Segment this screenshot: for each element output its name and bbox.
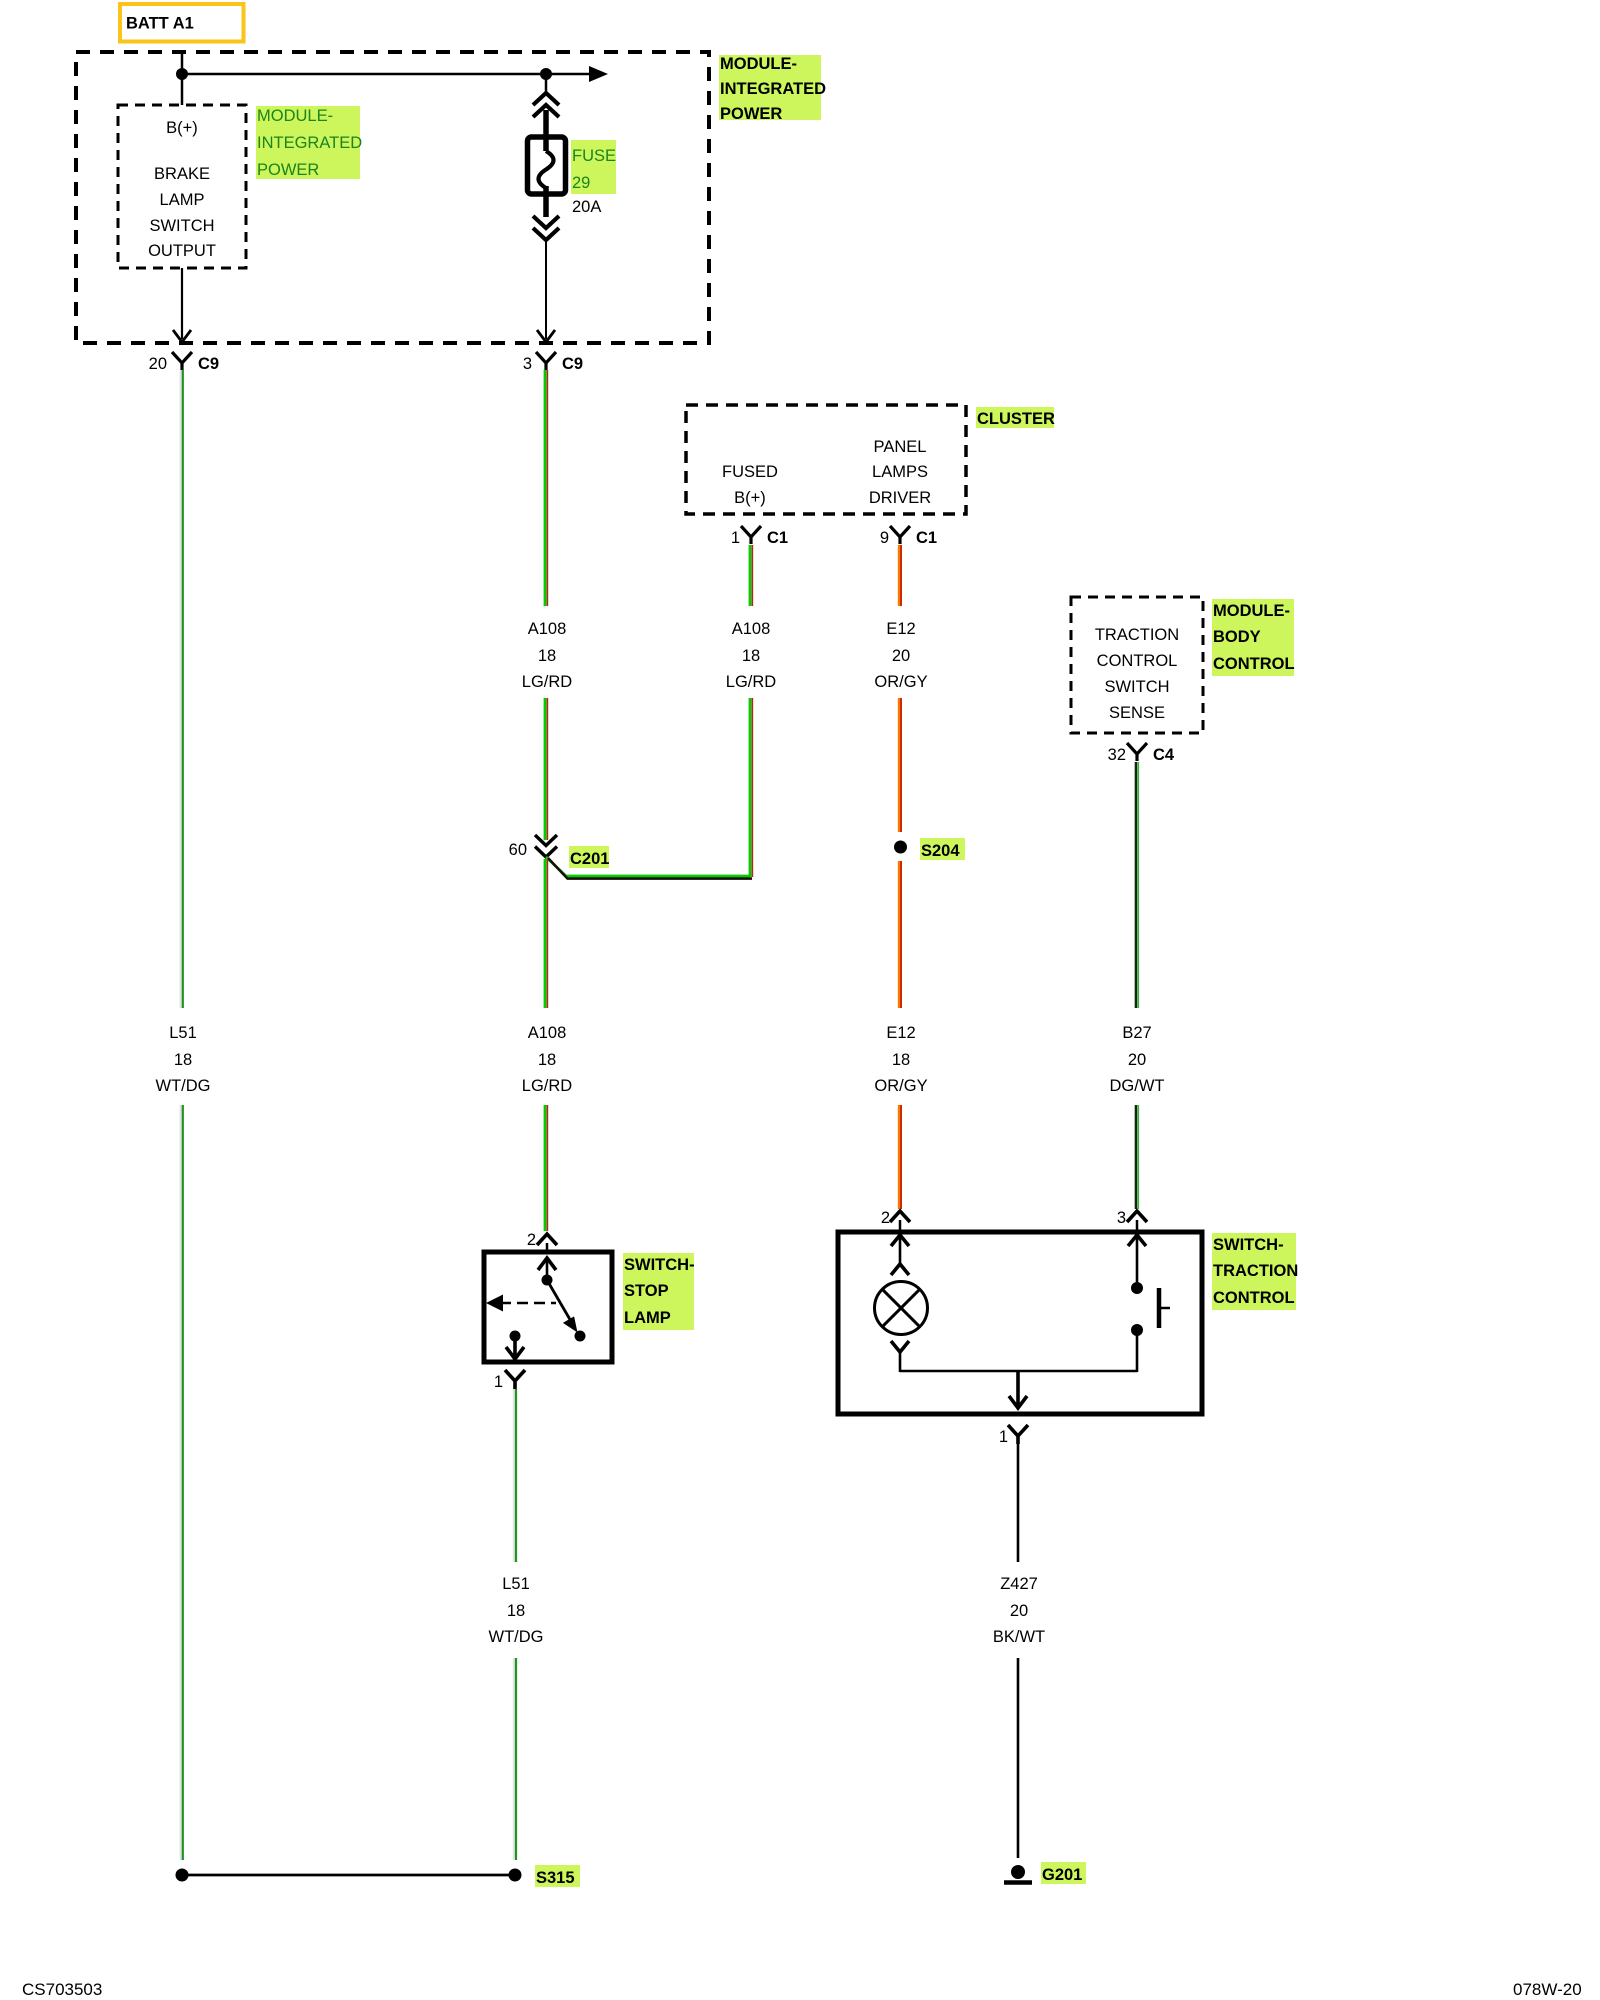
wire L51 WT/DG to splice S315 — [514, 1658, 516, 1860]
svg-text:G201: G201 — [1042, 1866, 1082, 1884]
svg-text:LAMPS: LAMPS — [872, 463, 928, 481]
traction control switch pin 2 — [881, 1209, 910, 1232]
connector C9 pin 3 — [523, 352, 583, 373]
stop lamp switch actuator dashed link — [486, 1295, 556, 1312]
svg-text:078W-20: 078W-20 — [1513, 1980, 1582, 1999]
wire E12 OR/GY to splice S204 — [899, 698, 901, 1008]
svg-text:WT/DG: WT/DG — [156, 1077, 211, 1095]
svg-text:CONTROL: CONTROL — [1213, 1289, 1295, 1307]
svg-text:A108: A108 — [732, 620, 771, 638]
traction control illumination lamp feed — [891, 1235, 909, 1275]
svg-text:SENSE: SENSE — [1109, 704, 1165, 722]
svg-text:DG/WT: DG/WT — [1110, 1077, 1165, 1095]
label G201 — [1041, 1862, 1086, 1884]
label MODULE-INTEGRATED POWER (outside right) — [719, 55, 826, 123]
svg-text:FUSED: FUSED — [722, 463, 778, 481]
svg-text:LG/RD: LG/RD — [522, 1077, 573, 1095]
svg-text:18: 18 — [892, 1051, 910, 1069]
svg-text:18: 18 — [742, 647, 760, 665]
svg-text:L51: L51 — [502, 1575, 530, 1593]
B(+) brake lamp switch output box (dashed) — [118, 105, 246, 268]
wire L51 WT/DG from stop lamp switch — [514, 1389, 516, 1562]
lamp (illumination bulb) — [875, 1282, 928, 1335]
svg-text:C1: C1 — [767, 529, 788, 547]
svg-text:B(+): B(+) — [734, 489, 766, 507]
svg-text:C201: C201 — [570, 850, 609, 868]
svg-text:20: 20 — [149, 355, 167, 373]
module-integrated power outline (dashed box) — [76, 52, 709, 343]
svg-text:18: 18 — [538, 1051, 556, 1069]
traction control switch pin 3 — [1117, 1209, 1147, 1232]
svg-text:60: 60 — [509, 841, 527, 859]
svg-text:BRAKE: BRAKE — [154, 165, 210, 183]
wire A108 LG/RD to stop lamp switch — [545, 1105, 547, 1231]
svg-text:POWER: POWER — [257, 161, 319, 179]
stop lamp switch blade — [547, 1280, 586, 1342]
svg-text:BODY: BODY — [1213, 628, 1261, 646]
traction control switch pin 1 — [999, 1425, 1028, 1446]
svg-text:LG/RD: LG/RD — [522, 673, 573, 691]
wire from BATT A1 into module — [181, 52, 184, 105]
common return bus inside switch — [900, 1371, 1137, 1408]
wire Z427 BK/WT upper — [1017, 1444, 1020, 1562]
svg-text:C9: C9 — [562, 355, 583, 373]
svg-text:18: 18 — [507, 1602, 525, 1620]
svg-text:20: 20 — [1010, 1602, 1028, 1620]
svg-text:INTEGRATED: INTEGRATED — [720, 80, 826, 98]
label CLUSTER — [976, 407, 1055, 428]
svg-text:C4: C4 — [1153, 746, 1175, 764]
wire A108 LG/RD cluster leg lower — [750, 698, 752, 877]
wire label L51 18 WT/DG (lower) — [489, 1575, 544, 1646]
svg-text:FUSE: FUSE — [572, 147, 616, 165]
label MODULE-INTEGRATED POWER (inner, green) — [256, 106, 362, 179]
svg-text:CS703503: CS703503 — [22, 1980, 102, 1999]
svg-text:DRIVER: DRIVER — [869, 489, 931, 507]
svg-text:C1: C1 — [916, 529, 937, 547]
wire E12 OR/GY to traction control switch — [899, 1105, 901, 1209]
svg-text:2: 2 — [881, 1209, 890, 1227]
cluster outline (dashed box) — [686, 405, 966, 514]
label S315 — [535, 1865, 580, 1887]
stop lamp switch pin 2 — [527, 1231, 557, 1252]
wire label A108 18 LG/RD (upper) — [522, 620, 573, 691]
svg-text:CLUSTER: CLUSTER — [977, 410, 1055, 428]
wire label Z427 20 BK/WT — [993, 1575, 1045, 1646]
svg-text:3: 3 — [523, 355, 532, 373]
svg-text:CONTROL: CONTROL — [1213, 655, 1295, 673]
momentary push button actuator — [1159, 1288, 1170, 1328]
svg-text:OR/GY: OR/GY — [874, 1077, 927, 1095]
stop lamp switch common terminal — [538, 1258, 556, 1286]
label FUSE 29 — [571, 140, 616, 194]
svg-text:20: 20 — [892, 647, 910, 665]
svg-text:1: 1 — [999, 1428, 1008, 1446]
svg-text:18: 18 — [174, 1051, 192, 1069]
svg-text:SWITCH-: SWITCH- — [1213, 1236, 1284, 1254]
wire label E12 20 OR/GY — [874, 620, 927, 691]
node junction at fuse feed — [540, 68, 552, 80]
svg-text:BATT A1: BATT A1 — [126, 15, 194, 33]
connector C4 pin 32 — [1108, 743, 1175, 764]
node junction at B(+) feed — [176, 68, 188, 80]
wire A108 LG/RD cluster leg upper — [750, 545, 752, 606]
svg-text:TRACTION: TRACTION — [1213, 1262, 1298, 1280]
svg-text:LAMP: LAMP — [160, 191, 205, 209]
wire E12 OR/GY panel lamps driver upper — [899, 545, 901, 606]
svg-text:POWER: POWER — [720, 105, 782, 123]
svg-text:E12: E12 — [886, 1024, 915, 1042]
label MODULE-BODY CONTROL — [1212, 599, 1295, 676]
svg-text:SWITCH: SWITCH — [149, 217, 214, 235]
wire L51 WT/DG lower segment to splice — [181, 1105, 183, 1860]
svg-text:B27: B27 — [1122, 1024, 1151, 1042]
fuse F29 body — [528, 137, 566, 194]
fuse 29 top feed with inline connector chevrons — [545, 74, 548, 95]
wire label A108 18 LG/RD (middle) — [522, 1024, 573, 1095]
svg-text:20A: 20A — [572, 198, 601, 216]
connector C1 pin 1 — [731, 526, 788, 547]
label SWITCH-STOP LAMP — [623, 1253, 695, 1330]
svg-text:TRACTION: TRACTION — [1095, 626, 1179, 644]
wire B27 DG/WT upper — [1136, 762, 1138, 1008]
fuse 29 bottom lead with inline connector chevrons — [543, 186, 549, 217]
svg-text:INTEGRATED: INTEGRATED — [257, 134, 362, 152]
wire label L51 18 WT/DG — [156, 1024, 211, 1095]
wire B27 DG/WT to traction control switch — [1136, 1105, 1138, 1209]
switch-traction control box — [838, 1232, 1202, 1414]
svg-text:LG/RD: LG/RD — [726, 673, 777, 691]
splice S204 — [894, 838, 965, 860]
wire branch from C201 to cluster leg (LG/RD) — [546, 857, 752, 879]
svg-text:L51: L51 — [169, 1024, 197, 1042]
svg-text:A108: A108 — [528, 1024, 567, 1042]
svg-text:WT/DG: WT/DG — [489, 1628, 544, 1646]
svg-text:PANEL: PANEL — [874, 438, 927, 456]
battery feed label BATT A1 — [120, 4, 244, 42]
stop lamp switch pin 1 — [494, 1370, 525, 1391]
svg-text:S204: S204 — [921, 842, 960, 860]
wire A108 LG/RD from C9 to C201 — [545, 370, 547, 606]
svg-text:B(+): B(+) — [166, 119, 198, 137]
svg-text:SWITCH-: SWITCH- — [624, 1256, 695, 1274]
svg-text:MODULE-: MODULE- — [257, 107, 333, 125]
lamp return lead — [891, 1341, 909, 1372]
svg-text:32: 32 — [1108, 746, 1126, 764]
svg-text:MODULE-: MODULE- — [720, 55, 797, 73]
svg-text:S315: S315 — [536, 1869, 575, 1887]
splice S315 bus — [176, 1869, 522, 1882]
svg-text:9: 9 — [880, 529, 889, 547]
svg-text:A108: A108 — [528, 620, 567, 638]
ground G201 — [1004, 1865, 1032, 1883]
svg-text:C9: C9 — [198, 355, 219, 373]
wire bus to fuse 29 with arrow — [182, 73, 589, 76]
svg-text:CONTROL: CONTROL — [1097, 652, 1178, 670]
traction switch sense lead — [1128, 1235, 1146, 1372]
svg-text:LAMP: LAMP — [624, 1309, 671, 1327]
wire label A108 18 LG/RD (cluster leg) — [726, 620, 777, 691]
svg-text:SWITCH: SWITCH — [1104, 678, 1169, 696]
label C201 — [569, 846, 609, 868]
svg-text:2: 2 — [527, 1231, 536, 1249]
switch-stop lamp box — [484, 1252, 612, 1362]
connector C1 pin 9 — [880, 526, 937, 547]
svg-text:20: 20 — [1128, 1051, 1146, 1069]
svg-text:BK/WT: BK/WT — [993, 1628, 1045, 1646]
svg-text:OR/GY: OR/GY — [874, 673, 927, 691]
svg-text:18: 18 — [538, 647, 556, 665]
wire label B27 20 DG/WT — [1110, 1024, 1165, 1095]
inline connector C201 chevrons — [509, 835, 557, 859]
svg-text:STOP: STOP — [624, 1282, 669, 1300]
label SWITCH-TRACTION CONTROL — [1212, 1233, 1298, 1310]
svg-text:3: 3 — [1117, 1209, 1126, 1227]
wire label E12 18 OR/GY (lower) — [874, 1024, 927, 1095]
wire brake lamp switch output down — [181, 268, 183, 339]
svg-text:Z427: Z427 — [1000, 1575, 1038, 1593]
wire L51 WT/DG upper segment — [181, 370, 183, 1008]
stop lamp switch output terminal — [506, 1331, 524, 1360]
wire Z427 BK/WT to ground — [1017, 1658, 1020, 1858]
svg-text:1: 1 — [731, 529, 740, 547]
svg-text:MODULE-: MODULE- — [1213, 602, 1290, 620]
svg-text:OUTPUT: OUTPUT — [148, 242, 216, 260]
svg-text:1: 1 — [494, 1373, 503, 1391]
svg-text:29: 29 — [572, 174, 590, 192]
wire A108 LG/RD from label to splice C201 — [545, 698, 547, 840]
svg-text:E12: E12 — [886, 620, 915, 638]
wire A108 LG/RD below C201 — [545, 859, 547, 1008]
traction control switch sense outline (dashed box) — [1071, 597, 1203, 733]
connector C9 pin 20 — [149, 352, 219, 373]
